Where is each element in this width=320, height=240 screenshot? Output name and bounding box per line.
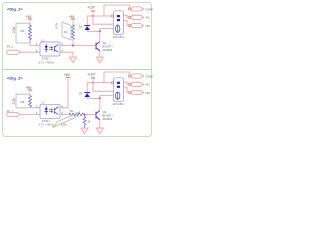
svg-text:+5V: +5V xyxy=(69,15,76,19)
svg-text:U1: U1 xyxy=(41,38,45,42)
opto OK1 xyxy=(40,42,60,56)
wire opto pin3 to ground xyxy=(60,52,73,57)
wire +12V rail xyxy=(93,83,116,92)
svg-text:+12V: +12V xyxy=(87,73,95,77)
svg-text:D2: D2 xyxy=(79,92,83,96)
svg-text:R1: R1 xyxy=(21,29,25,33)
opto LED xyxy=(45,106,48,115)
power +12V (ch1) xyxy=(91,10,95,12)
junction +12V node xyxy=(92,82,94,84)
opto phototransistor xyxy=(55,107,59,115)
resistor R1 body bracket xyxy=(16,23,29,43)
transistor Q2 xyxy=(96,111,100,120)
ground (Q2) xyxy=(96,128,103,134)
ground (opto) xyxy=(69,57,76,63)
wire R3 to opto pin1 xyxy=(30,107,40,109)
relay coil xyxy=(116,92,120,99)
svg-text:(LTV + 4N3x): (LTV + 4N3x) xyxy=(39,123,54,127)
resistor R3 zigzag xyxy=(29,94,32,108)
svg-text:NO: NO xyxy=(146,91,151,95)
wire Q2 emitter to ground xyxy=(99,120,101,128)
svg-text:RAS-0510: RAS-0510 xyxy=(113,36,125,39)
svg-text:+5V: +5V xyxy=(26,86,33,90)
svg-text:<Dig_2>: <Dig_2> xyxy=(7,76,23,81)
resistor R1 zigzag xyxy=(29,23,32,43)
relay contact bar 2 xyxy=(117,86,120,88)
pad NC (ch2) xyxy=(129,83,131,85)
resistor Rx (horizontal) xyxy=(69,113,83,116)
wire +12V rail xyxy=(93,16,116,24)
junction base node xyxy=(84,114,86,116)
relay COM pin circle xyxy=(112,82,114,84)
relay contact bar 2 xyxy=(117,19,120,21)
wire opto pin4 to Q1 base xyxy=(60,45,96,47)
power +5V (R1) xyxy=(28,18,32,20)
wire COM over the top xyxy=(104,5,130,16)
wire diode bottom to collector xyxy=(87,30,100,31)
relay coil xyxy=(116,25,120,32)
pad NC (ch1) xyxy=(129,16,131,18)
ground (R4) xyxy=(81,128,88,134)
wire R1 to opto pin1 xyxy=(30,43,40,46)
wire +12V to relay COM pin xyxy=(93,82,112,84)
wire collector to coil pin xyxy=(100,96,116,99)
wire diode branch top xyxy=(87,16,93,25)
svg-text:NO: NO xyxy=(146,24,151,28)
relay COM pin circle xyxy=(112,15,114,17)
opto phototransistor xyxy=(55,44,59,52)
opto light arrows xyxy=(49,109,53,113)
power +5V (R3) xyxy=(28,89,32,91)
LED D3 body (green parallelogram) xyxy=(62,22,71,40)
junction node R2/pin4 xyxy=(72,45,74,47)
junction +12V node xyxy=(92,15,94,17)
opto OK2 xyxy=(40,104,60,118)
diode D1 xyxy=(84,26,90,30)
svg-text:2.2k: 2.2k xyxy=(12,27,16,33)
svg-text:2N3904: 2N3904 xyxy=(103,117,113,121)
wire COM over the top xyxy=(104,72,130,83)
svg-text:<Dig_1>: <Dig_1> xyxy=(7,6,23,11)
wire Q1 collector xyxy=(99,29,101,42)
svg-text:+5V: +5V xyxy=(64,73,71,77)
wire diode bottom to collector xyxy=(87,97,100,98)
pad COM (ch1) xyxy=(129,8,131,10)
svg-text:1.5V: 1.5V xyxy=(61,123,67,127)
svg-text:Rx: Rx xyxy=(64,30,68,34)
svg-text:PC817: PC817 xyxy=(42,57,50,61)
wire +5V down to opto pin4 xyxy=(60,81,68,108)
wire relay NO xyxy=(124,15,129,17)
wire relay NC xyxy=(124,20,129,25)
svg-text:D1: D1 xyxy=(79,25,83,29)
pad COM (ch2) xyxy=(129,75,131,77)
svg-text:U2: U2 xyxy=(41,101,45,105)
resistor R2 zigzag xyxy=(72,24,75,40)
opto LED xyxy=(45,44,48,53)
svg-text:2N3904: 2N3904 xyxy=(103,48,113,52)
wire +12V to relay COM pin xyxy=(93,15,112,17)
wire diode branch top xyxy=(87,83,93,93)
wire P1.2 to opto pin2 xyxy=(20,114,40,116)
svg-text:COM: COM xyxy=(146,7,154,11)
opto light arrows xyxy=(49,46,53,50)
wire P1.1 to opto pin2 xyxy=(20,51,40,53)
LED D4 body (green parallelogram) xyxy=(54,112,80,127)
wire R2 to node xyxy=(72,39,74,45)
svg-text:+5V: +5V xyxy=(26,15,33,19)
power +5V (R2) xyxy=(71,18,75,20)
relay contact bar 1 xyxy=(117,82,120,84)
wire Q1 emitter to ground xyxy=(99,51,101,57)
ground (Q1) xyxy=(96,57,103,63)
wire Rx to Q2 base xyxy=(83,114,96,116)
svg-text:4.7k: 4.7k xyxy=(55,23,59,29)
wire collector to coil pin xyxy=(100,29,116,32)
wire Q2 collector xyxy=(99,96,101,111)
wire opto pin3 to Rx xyxy=(60,114,69,116)
power +5V (ch2 pull) xyxy=(66,76,70,78)
power +12V (ch2) xyxy=(91,77,95,79)
junction diode/collector xyxy=(99,97,101,99)
svg-text:Rx: Rx xyxy=(70,109,74,113)
svg-text:R3: R3 xyxy=(21,100,25,104)
pad NO (ch2) xyxy=(129,91,131,93)
svg-text:P1.1: P1.1 xyxy=(7,45,14,49)
svg-text:PC817: PC817 xyxy=(42,119,50,123)
pad NO (ch1) xyxy=(129,24,131,26)
svg-text:2.2k: 2.2k xyxy=(12,98,16,104)
svg-text:(LTV + 4N3x): (LTV + 4N3x) xyxy=(39,60,54,64)
diode D2 xyxy=(84,93,90,97)
section divider xyxy=(3,69,152,71)
sheet frame xyxy=(3,3,152,137)
svg-text:COM: COM xyxy=(146,74,154,78)
relay K2 box xyxy=(113,78,123,102)
wire relay NO xyxy=(124,82,129,84)
resistor R3 body bracket xyxy=(16,94,29,108)
resistor R4 (pulldown) zigzag xyxy=(83,115,86,128)
svg-text:RAS-0510: RAS-0510 xyxy=(113,103,125,106)
relay K1 box xyxy=(113,11,123,35)
junction diode/collector xyxy=(99,30,101,32)
transistor Q1 xyxy=(96,42,100,51)
svg-text:+12V: +12V xyxy=(87,6,95,10)
wire relay NC xyxy=(124,87,129,93)
relay contact bar 1 xyxy=(117,15,120,17)
